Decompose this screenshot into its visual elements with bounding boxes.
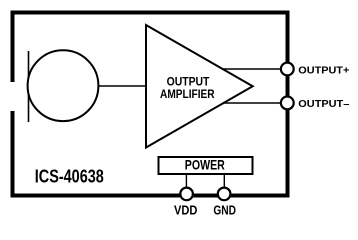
svg-text:AMPLIFIER: AMPLIFIER bbox=[160, 87, 215, 101]
svg-text:OUTPUT+: OUTPUT+ bbox=[298, 66, 349, 77]
svg-text:POWER: POWER bbox=[185, 156, 225, 172]
svg-text:VDD: VDD bbox=[174, 204, 197, 218]
svg-text:ICS-40638: ICS-40638 bbox=[35, 165, 104, 186]
svg-text:OUTPUT–: OUTPUT– bbox=[298, 99, 349, 110]
svg-text:GND: GND bbox=[213, 204, 236, 218]
